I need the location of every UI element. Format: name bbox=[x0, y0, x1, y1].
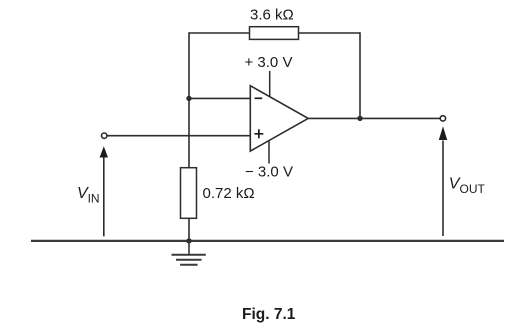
svg-text:− 3.0 V: − 3.0 V bbox=[245, 164, 293, 181]
svg-text:3.6 kΩ: 3.6 kΩ bbox=[250, 6, 294, 23]
svg-text:OUT: OUT bbox=[460, 182, 486, 196]
negative supply wire bbox=[268, 140, 270, 164]
resistor R1 3.6k box bbox=[250, 27, 299, 40]
VOUT label bbox=[449, 175, 486, 196]
resistor R2 0.72k box bbox=[181, 168, 197, 219]
wire feedback top-right segment bbox=[299, 32, 361, 34]
VIN label bbox=[77, 185, 100, 206]
wire output bbox=[308, 117, 440, 119]
op-amp U1 triangle bbox=[250, 86, 308, 151]
wire R2 to ground rail bbox=[188, 218, 190, 241]
svg-text:+ 3.0 V: + 3.0 V bbox=[245, 54, 293, 71]
VIN arrow bbox=[100, 146, 108, 236]
node B junction dot (output) bbox=[357, 116, 362, 121]
svg-text:Fig. 7.1: Fig. 7.1 bbox=[242, 306, 296, 323]
node C junction dot (ground) bbox=[186, 238, 191, 243]
ground symbol bbox=[172, 241, 206, 265]
op-amp minus pin label bbox=[255, 97, 263, 99]
node A junction dot (inverting input) bbox=[186, 96, 191, 101]
positive supply wire bbox=[269, 71, 271, 97]
wire feedback left vertical bbox=[188, 32, 190, 168]
input terminal circle bbox=[102, 133, 107, 138]
output terminal circle bbox=[440, 116, 445, 121]
svg-text:IN: IN bbox=[88, 192, 100, 206]
wire feedback right vertical bbox=[359, 32, 361, 118]
VOUT arrow bbox=[439, 126, 447, 236]
wire inverting input bbox=[189, 97, 250, 99]
ground rail wire bbox=[31, 240, 504, 242]
wire non-inverting input bbox=[107, 135, 250, 137]
svg-text:0.72 kΩ: 0.72 kΩ bbox=[203, 185, 255, 202]
wire feedback top-left segment bbox=[189, 32, 250, 34]
op-amp plus pin label bbox=[254, 129, 263, 138]
